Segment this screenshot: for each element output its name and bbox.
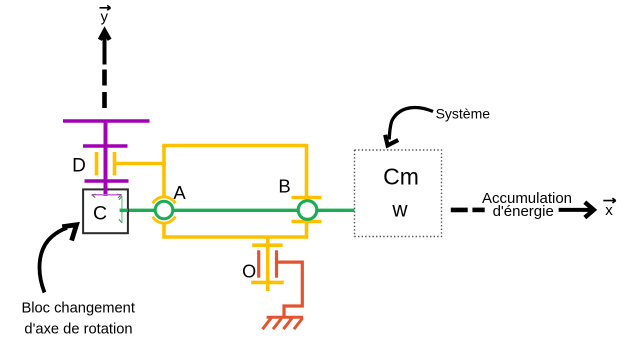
y-axis arrowhead bbox=[100, 31, 110, 40]
energy dashed line bbox=[451, 208, 485, 213]
bevel gear vertical line inside C bbox=[119, 196, 122, 223]
red tooth right at O bbox=[275, 250, 278, 277]
pivot B top bar bbox=[292, 196, 322, 200]
svg-text:D: D bbox=[72, 156, 86, 177]
purple gear bar top wide bbox=[63, 119, 150, 123]
yellow frame left lower bbox=[162, 223, 166, 237]
svg-text:C: C bbox=[93, 203, 107, 225]
label x vector bbox=[603, 198, 616, 219]
label y vector bbox=[100, 5, 111, 25]
pivot A green circle bbox=[155, 201, 173, 219]
yellow frame left upper bbox=[162, 146, 166, 197]
yellow pinion tooth right of D bbox=[113, 152, 117, 176]
yellow pinion tooth left of D bbox=[95, 152, 99, 176]
svg-text:x: x bbox=[605, 202, 613, 219]
yellow shaft O vertical bbox=[266, 237, 270, 291]
svg-text:O: O bbox=[242, 262, 256, 282]
box C bbox=[83, 189, 128, 233]
y-axis dashed line bbox=[103, 42, 107, 108]
svg-text:d'énergie: d'énergie bbox=[493, 203, 554, 220]
curved arrow to box C bbox=[40, 228, 67, 293]
yellow frame bottom bbox=[162, 235, 308, 239]
svg-text:y: y bbox=[101, 9, 109, 26]
curved arrow to system box bbox=[389, 108, 433, 140]
ground symbol bbox=[263, 317, 304, 329]
purple gear bar middle bbox=[83, 144, 128, 148]
svg-text:Système: Système bbox=[436, 105, 491, 121]
svg-text:Cm: Cm bbox=[383, 164, 419, 190]
pivot B bottom bar bbox=[292, 220, 322, 224]
x-axis arrow bbox=[559, 208, 591, 212]
green shaft stub into C bbox=[120, 209, 128, 212]
bevel gear horizontal line inside C bbox=[92, 194, 122, 197]
svg-text:d'axe de rotation: d'axe de rotation bbox=[24, 322, 132, 338]
svg-text:Bloc changement: Bloc changement bbox=[21, 301, 135, 317]
yellow flange O bottom bbox=[251, 281, 284, 285]
red tooth left at O bbox=[257, 250, 260, 277]
yellow frame top bbox=[162, 144, 308, 148]
green shaft bbox=[120, 209, 355, 212]
svg-text:A: A bbox=[173, 182, 186, 203]
red link to ground bbox=[277, 262, 303, 317]
purple shaft D vertical bbox=[104, 120, 108, 197]
pivot A yellow arcs bbox=[153, 197, 176, 223]
yellow link from D pinion to frame bbox=[115, 162, 166, 166]
yellow frame right lower bbox=[305, 222, 309, 238]
purple gear bar bottom bbox=[85, 179, 129, 183]
svg-text:B: B bbox=[278, 176, 290, 197]
yellow flange O top bbox=[252, 243, 282, 247]
svg-text:w: w bbox=[391, 199, 408, 222]
system dotted box bbox=[355, 150, 442, 237]
purple shaft stub inside C bbox=[104, 188, 108, 196]
yellow frame right upper bbox=[305, 146, 309, 198]
pivot B green circle bbox=[298, 201, 317, 220]
